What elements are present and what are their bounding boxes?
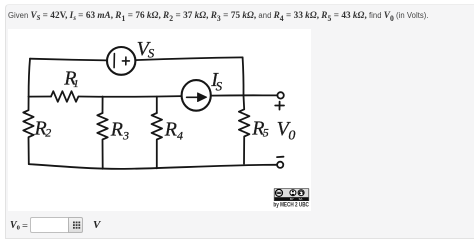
svg-text:5: 5: [263, 125, 269, 139]
voltage source VS circle: [107, 47, 135, 75]
CC license badge: [274, 188, 309, 200]
svg-text:0: 0: [288, 128, 295, 143]
BY person icon circle: [290, 189, 296, 195]
node R4 top: [156, 96, 158, 112]
VS plus sign inside: [122, 57, 129, 65]
resistor R1: [51, 91, 78, 102]
label VS: [34, 37, 296, 143]
terminal + circle: [277, 92, 283, 98]
svg-text:SA: SA: [299, 197, 303, 201]
svg-text:3: 3: [122, 128, 129, 142]
wire mid R1 to IS: [79, 95, 182, 98]
SA arrow icon circle: [298, 189, 304, 195]
resistor R2 (on left wire): [23, 96, 33, 164]
resistor R5 (right branch): [239, 95, 250, 163]
svg-text:2: 2: [45, 125, 51, 139]
wire bottom: [29, 164, 277, 169]
svg-text:BY: BY: [290, 197, 294, 201]
svg-text:S: S: [216, 78, 223, 93]
svg-text:by MECH 2 UBC: by MECH 2 UBC: [273, 201, 309, 208]
IS arrow head: [198, 92, 207, 101]
wire top-right horizontal: [135, 57, 242, 60]
CC logo circle: [276, 189, 283, 196]
svg-text:1: 1: [73, 78, 79, 90]
answer row: [10, 220, 20, 232]
current source IS circle: [182, 80, 211, 111]
wire top-left horizontal: [30, 58, 107, 60]
plus sign under terminal: [275, 101, 284, 109]
minus sign above terminal: [277, 155, 284, 157]
resistor R4: [152, 113, 162, 168]
svg-text:R: R: [110, 118, 123, 140]
node R3 top: [102, 96, 104, 113]
svg-text:S: S: [148, 45, 155, 60]
svg-text:R: R: [164, 118, 177, 140]
resistor R3: [97, 113, 107, 169]
svg-text:4: 4: [177, 128, 183, 142]
terminal - circle: [277, 161, 283, 167]
wire right vertical drop: [242, 57, 245, 95]
wire mid-left segment: [29, 95, 51, 97]
wire left vertical: [29, 58, 30, 96]
wire mid IS to + terminal: [211, 94, 277, 96]
VS minus bar inside: [113, 53, 115, 67]
IS arrow shaft: [187, 96, 199, 98]
